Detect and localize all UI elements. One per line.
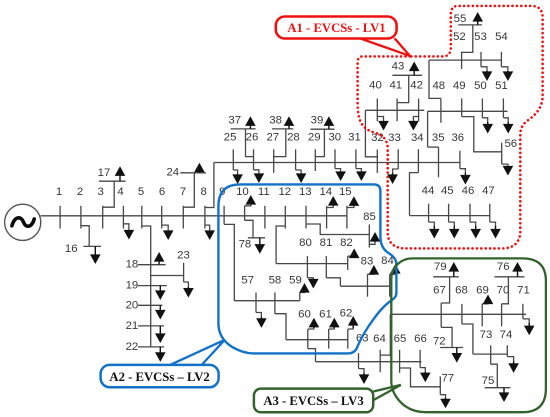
svg-text:54: 54 [495, 31, 508, 43]
bus 60 [298, 309, 311, 349]
generation arrow bus 69 [482, 295, 493, 305]
bus 14 [319, 186, 332, 228]
svg-text:22: 22 [126, 341, 139, 353]
bus 41 [389, 80, 402, 122]
load arrow bus 51 [503, 118, 514, 134]
bus 72 with load [433, 327, 463, 362]
load arrow bus 33 [387, 169, 398, 184]
svg-text:35: 35 [432, 132, 445, 144]
bus 17 with generation arrow [98, 166, 126, 207]
bus 44 [422, 185, 435, 222]
wire main feeder bus1-bus15 [41, 215, 347, 217]
svg-text:40: 40 [369, 80, 382, 92]
bus 25 [224, 132, 237, 170]
svg-text:27: 27 [266, 132, 279, 144]
svg-text:14: 14 [319, 186, 332, 198]
wire feeder bus80-bus82 [276, 263, 348, 265]
bus 34 [411, 132, 424, 173]
svg-text:4: 4 [117, 186, 123, 198]
generation arrow bus 59 [299, 283, 310, 293]
svg-text:36: 36 [451, 132, 464, 144]
wire feeder bus57-bus59 [234, 300, 299, 302]
svg-text:A1 - EVCSs - LV1: A1 - EVCSs - LV1 [287, 21, 385, 35]
bus 67 [433, 284, 446, 327]
svg-text:41: 41 [389, 80, 402, 92]
load arrow bus 8 [204, 225, 215, 240]
bus 83 [361, 255, 374, 296]
svg-text:43: 43 [392, 61, 405, 73]
wire riser bus48 to bus52 feeder [429, 60, 441, 98]
svg-text:51: 51 [495, 80, 508, 92]
bus 42 [410, 80, 423, 122]
svg-text:44: 44 [422, 185, 435, 197]
bus 73 [480, 329, 493, 364]
svg-text:76: 76 [497, 261, 510, 273]
bus 75 with load [482, 364, 511, 402]
svg-text:82: 82 [340, 237, 353, 249]
svg-text:61: 61 [319, 309, 332, 321]
bus 48 [432, 80, 445, 123]
bus 56 with load [462, 117, 517, 176]
wire feeder bus63-bus66 [316, 361, 422, 363]
svg-text:28: 28 [287, 132, 300, 144]
svg-text:65: 65 [394, 333, 407, 345]
wire feeder bus40-bus42 [365, 109, 424, 111]
generation arrow bus 15 [347, 196, 359, 207]
bus 11 [258, 186, 270, 228]
bus 51 [495, 80, 508, 118]
svg-text:49: 49 [453, 80, 466, 92]
bus 84 [381, 255, 394, 297]
svg-text:53: 53 [474, 31, 487, 43]
bus 53 [474, 31, 487, 67]
svg-text:39: 39 [311, 115, 324, 127]
bus 13 [299, 186, 312, 228]
svg-text:57: 57 [241, 275, 254, 287]
svg-text:77: 77 [441, 373, 454, 385]
load arrow bus 80 [307, 278, 318, 289]
generation arrow bus 62 [348, 316, 359, 329]
svg-text:23: 23 [177, 250, 190, 262]
bus 68 [455, 284, 468, 324]
svg-text:85: 85 [363, 211, 376, 223]
svg-text:A3 - EVCSs – LV3: A3 - EVCSs – LV3 [263, 394, 363, 408]
svg-text:79: 79 [434, 261, 447, 273]
load arrow bus 25 [232, 170, 243, 184]
bus 32 [371, 132, 384, 173]
bus 76 with generation arrow [495, 261, 525, 304]
generation arrow bus 84 [390, 264, 401, 274]
load arrow bus 30 [335, 169, 346, 181]
load arrow bus 4 [123, 224, 134, 240]
bus 22 with load [126, 341, 166, 362]
wire bus5 to bus18-22 trunk [142, 226, 151, 347]
load arrow bus 66 [420, 368, 431, 383]
svg-text:56: 56 [504, 138, 517, 150]
bus 4 [117, 186, 123, 228]
generation arrow bus 82 [348, 249, 360, 259]
bus 16 with load [65, 226, 101, 264]
bus 3 [98, 186, 104, 228]
bus 85 with generation arrow [306, 211, 380, 247]
load arrow bus 54 [501, 67, 513, 81]
wire bus68 riser to bus73 feeder [462, 324, 473, 354]
svg-text:47: 47 [482, 185, 495, 197]
bus 10 [236, 186, 249, 220]
generation arrow bus 14 [327, 196, 339, 208]
svg-text:18: 18 [126, 259, 139, 271]
bus 78 with load [239, 220, 266, 253]
bus 82 [340, 237, 353, 270]
wire feeder bus83-bus84 [340, 285, 389, 287]
svg-text:50: 50 [474, 80, 487, 92]
wire bus64 riser to bus67 feeder (area A3 trunk) [380, 314, 390, 355]
load arrow bus 46 [470, 222, 481, 238]
area A1 boundary (red dotted) [358, 6, 543, 249]
svg-text:52: 52 [453, 31, 466, 43]
svg-text:68: 68 [455, 284, 468, 296]
bus 79 with generation arrow [433, 261, 459, 303]
svg-text:81: 81 [320, 237, 333, 249]
load arrow bus 47 [490, 222, 501, 238]
bus 12 [278, 186, 291, 228]
svg-text:67: 67 [433, 284, 446, 296]
bus 36 [451, 132, 464, 169]
wire bus60 riser to bus63 feeder [308, 349, 316, 362]
svg-text:31: 31 [348, 132, 361, 144]
wire feeder bus73-bus74 [473, 353, 507, 355]
load arrow bus 63 [359, 369, 370, 384]
load arrow bus 50 [482, 118, 493, 134]
wire bus9 riser to bus57 feeder [224, 224, 234, 300]
svg-text:58: 58 [269, 275, 282, 287]
svg-text:8: 8 [201, 186, 207, 198]
svg-text:42: 42 [410, 80, 423, 92]
svg-text:15: 15 [339, 186, 352, 198]
svg-text:46: 46 [462, 185, 475, 197]
generation arrow bus 61 [329, 318, 340, 329]
svg-text:16: 16 [65, 243, 78, 255]
svg-text:12: 12 [278, 186, 291, 198]
bus 27 [266, 132, 279, 173]
bus 21 with load [126, 320, 166, 343]
bus 52 [453, 31, 466, 69]
svg-text:20: 20 [126, 299, 139, 311]
svg-text:70: 70 [497, 284, 510, 296]
svg-text:13: 13 [299, 186, 312, 198]
svg-text:73: 73 [480, 329, 493, 341]
bus 77 with load [400, 368, 455, 408]
svg-text:25: 25 [224, 132, 237, 144]
bus 61 [319, 309, 332, 349]
label box A3 - EVCSs - LV3 with callout [254, 385, 401, 412]
svg-text:19: 19 [126, 280, 139, 292]
bus 59 [289, 275, 302, 301]
generation arrow bus 83 [368, 265, 380, 275]
bus 7 [180, 186, 186, 228]
load arrow bus 28 [296, 170, 307, 183]
svg-text:72: 72 [433, 335, 446, 347]
wire feeder bus48-bus51 [428, 110, 508, 112]
bus 31 [348, 132, 361, 169]
load arrow bus 42 [408, 117, 419, 131]
bus 23 with load [151, 250, 194, 298]
bus 62 [340, 308, 353, 349]
area A2 boundary (blue) [218, 184, 396, 353]
label box A1 - EVCSs - LV1 with callout [276, 17, 410, 56]
bus 15 [339, 186, 352, 228]
load arrow bus 36 [460, 169, 471, 185]
svg-text:83: 83 [361, 255, 374, 267]
svg-text:21: 21 [126, 320, 139, 332]
bus 63 [356, 332, 369, 368]
bus 46 [462, 185, 475, 222]
bus 33 [388, 132, 401, 169]
wire feeder bus25-bus36 [214, 162, 460, 164]
bus 2 [77, 186, 83, 228]
load arrow bus 6 [162, 225, 174, 240]
bus 37 with generation arrow [228, 115, 255, 157]
svg-text:34: 34 [411, 132, 424, 144]
load arrow bus 57 [256, 313, 267, 328]
svg-text:30: 30 [328, 132, 341, 144]
bus 38 with generation arrow [269, 115, 294, 157]
bus 74 [500, 329, 513, 357]
svg-text:75: 75 [482, 375, 495, 387]
svg-text:37: 37 [228, 115, 241, 127]
svg-text:26: 26 [246, 132, 259, 144]
svg-text:60: 60 [298, 309, 311, 321]
wire riser bus35 to bus48 feeder [427, 111, 429, 147]
svg-text:55: 55 [454, 13, 467, 25]
bus 6 [159, 186, 165, 228]
generator G1 (substation source) [5, 204, 41, 240]
svg-text:78: 78 [239, 238, 252, 250]
wire bus81 riser to bus83 feeder [326, 278, 340, 286]
load arrow bus 31 [356, 169, 367, 181]
bus 26 [246, 132, 259, 170]
bus 54 [495, 31, 508, 67]
bus 70 [497, 284, 510, 326]
load arrow bus 74 [507, 357, 519, 373]
svg-text:24: 24 [166, 166, 179, 178]
wire bus8 riser to bus25 feeder [205, 163, 214, 208]
bus 65 [394, 333, 407, 373]
svg-text:3: 3 [98, 186, 104, 198]
svg-text:11: 11 [258, 186, 270, 198]
svg-text:64: 64 [373, 333, 386, 345]
bus 49 [453, 80, 466, 117]
svg-text:69: 69 [476, 284, 489, 296]
svg-text:48: 48 [432, 80, 445, 92]
svg-text:5: 5 [138, 186, 144, 198]
wire feeder bus44-bus47 [410, 215, 490, 217]
wire feeder bus52-bus54 [429, 59, 502, 61]
bus 20 with load [126, 299, 166, 319]
bus 55 with generation arrow [454, 12, 483, 52]
svg-text:33: 33 [388, 132, 401, 144]
svg-text:29: 29 [308, 132, 321, 144]
svg-text:80: 80 [299, 237, 312, 249]
svg-text:10: 10 [236, 186, 249, 198]
svg-text:62: 62 [340, 308, 353, 320]
svg-text:59: 59 [289, 275, 302, 287]
bus 28 [287, 132, 300, 170]
load arrow bus 53 [481, 67, 492, 81]
bus 18 with load [126, 252, 166, 271]
bus 71 [517, 284, 530, 319]
load arrow bus 71 [523, 319, 535, 335]
bus 69 [476, 284, 489, 326]
bus 66 [414, 333, 427, 368]
wire bus32 riser to bus40 feeder [365, 110, 377, 157]
bus 9 [219, 186, 225, 224]
load arrow bus 40 [377, 117, 389, 131]
svg-text:66: 66 [414, 333, 427, 345]
bus 50 [474, 80, 487, 118]
bus 80 [299, 237, 312, 278]
svg-text:17: 17 [98, 167, 111, 179]
bus 29 [308, 132, 321, 171]
wire bus34 riser to bus44 feeder [410, 173, 419, 216]
generation arrow bus 60 [308, 318, 319, 329]
wire feeder bus67-bus71 [390, 313, 526, 315]
bus 5 [138, 186, 144, 228]
bus 57 [241, 275, 256, 313]
bus 81 [320, 237, 333, 278]
bus 30 [328, 132, 341, 169]
label box A2 - EVCSs - LV2 with callout [101, 340, 225, 387]
bus 40 [369, 80, 382, 122]
wire feeder bus60-bus62 [286, 339, 348, 341]
bus 35 [432, 132, 445, 177]
generation arrow bus 10 [245, 195, 257, 206]
wire bus12 riser to bus80 feeder [276, 226, 285, 264]
bus 24 with generation arrow [166, 163, 205, 208]
bus 58 [269, 275, 282, 314]
bus 19 with load [126, 280, 167, 300]
svg-text:45: 45 [441, 185, 454, 197]
svg-text:6: 6 [159, 186, 165, 198]
bus 47 [482, 185, 495, 222]
svg-text:7: 7 [180, 186, 186, 198]
svg-text:74: 74 [500, 329, 513, 341]
bus 1 [56, 186, 62, 228]
bus 45 [441, 185, 454, 222]
bus 43 with generation arrow [392, 61, 422, 103]
area A3 boundary (dark green) [391, 258, 546, 412]
load arrow bus 45 [449, 222, 460, 238]
svg-text:1: 1 [56, 186, 62, 198]
bus 39 with generation arrow [310, 115, 334, 157]
bus 64 [373, 333, 386, 372]
svg-text:71: 71 [517, 284, 530, 296]
load arrow bus 26 [254, 170, 265, 183]
wire bus58 riser to bus60 feeder [275, 314, 286, 340]
svg-text:38: 38 [269, 115, 282, 127]
load arrow bus 44 [429, 222, 440, 238]
svg-text:2: 2 [77, 186, 83, 198]
bus 8 [201, 186, 207, 228]
svg-text:A2 - EVCSs – LV2: A2 - EVCSs – LV2 [109, 370, 209, 384]
